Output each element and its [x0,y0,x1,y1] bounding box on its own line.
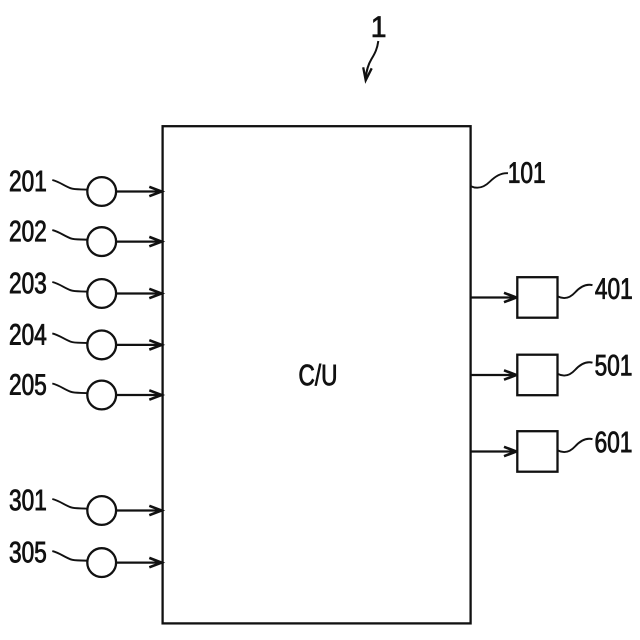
label 1 figure reference [373,17,385,37]
block C/U main control unit [163,126,471,623]
arrow wire 204 to C/U [116,340,161,349]
arrow wire 203 to C/U [116,289,161,298]
input node 305 (circle sensor) [10,542,116,577]
label 101 on C/U box [510,162,545,183]
arrow wire 201 to C/U [116,187,161,196]
input node 204 (circle sensor) [10,324,116,359]
leader arrow for label 1 [363,41,378,80]
arrow wire 205 to C/U [116,390,161,399]
input node 205 (circle sensor) [10,374,116,409]
arrow wire C/U to 501 [471,370,517,379]
leader line 101 [471,173,508,188]
arrow wire 202 to C/U [116,237,161,246]
arrow wire C/U to 401 [471,293,517,302]
input node 202 (circle sensor) [10,221,116,256]
output block 501 (square actuator) [517,355,631,396]
input node 203 (circle sensor) [10,273,116,308]
arrow wire 305 to C/U [116,558,161,567]
input node 301 (circle sensor) [10,490,116,525]
arrow wire C/U to 601 [471,447,517,456]
output block 601 (square actuator) [517,431,631,472]
input node 201 (circle sensor) [10,171,116,206]
output block 401 (square actuator) [517,277,631,318]
arrow wire 301 to C/U [116,506,161,515]
